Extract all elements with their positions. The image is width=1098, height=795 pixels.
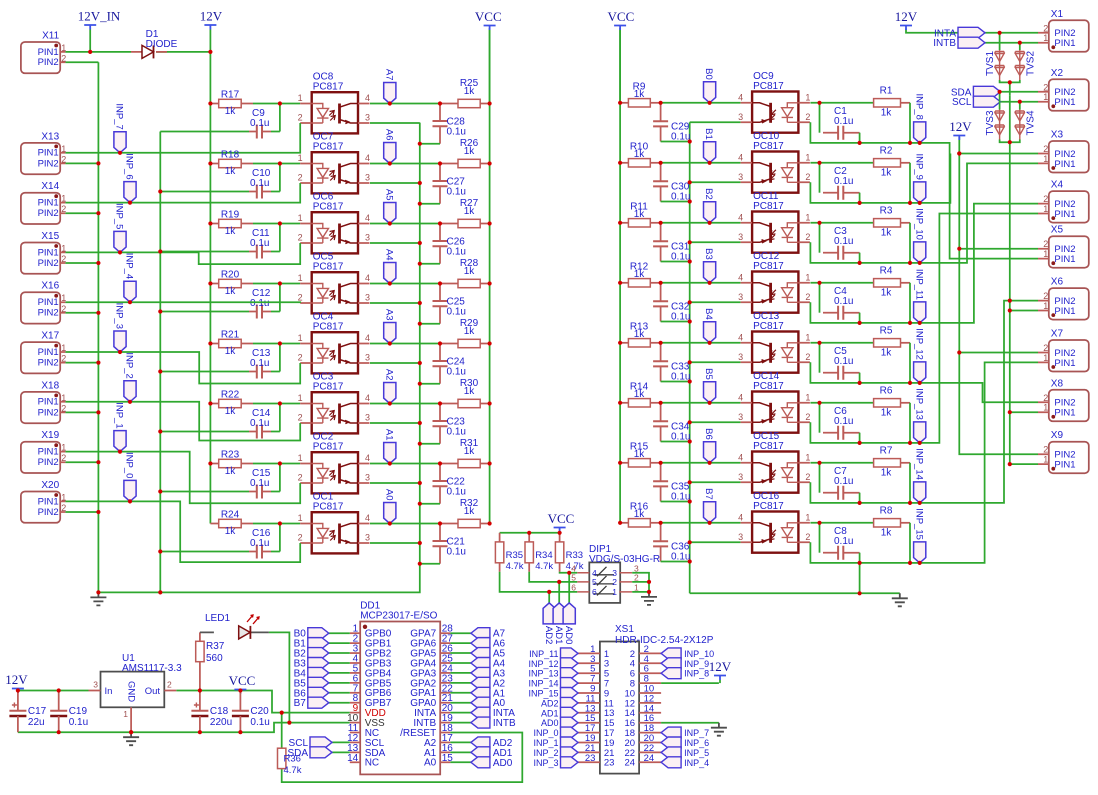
svg-text:PC817: PC817	[753, 441, 784, 452]
svg-text:1k: 1k	[464, 86, 476, 97]
svg-text:PC817: PC817	[313, 262, 344, 273]
wire OC13 pin2 to INP_12	[810, 362, 910, 383]
svg-text:0.1u: 0.1u	[834, 116, 853, 127]
led LED1	[200, 615, 269, 639]
svg-text:PIN1: PIN1	[38, 496, 59, 507]
svg-text:PIN1: PIN1	[1054, 159, 1075, 170]
svg-text:0.1u: 0.1u	[447, 247, 466, 258]
svg-text:1k: 1k	[464, 206, 476, 217]
svg-text:R22: R22	[221, 390, 240, 401]
junction cap gnd right	[688, 559, 692, 563]
svg-text:B0: B0	[703, 68, 714, 80]
lead C12 right	[262, 311, 271, 313]
lead R19 left	[210, 223, 218, 225]
svg-text:2: 2	[61, 53, 66, 63]
svg-text:1: 1	[61, 443, 66, 453]
wire INP_9 to label	[910, 202, 920, 204]
wire OC9 pin2 to INP_8	[810, 122, 910, 143]
svg-text:3: 3	[738, 412, 743, 422]
wire node to OC5 pin1	[280, 283, 300, 285]
svg-text:VCC: VCC	[548, 511, 575, 526]
wire INP_15 to label	[910, 562, 920, 564]
svg-text:A1: A1	[383, 429, 394, 441]
net label INP_12 at XS1	[561, 658, 579, 669]
svg-text:1k: 1k	[634, 509, 646, 520]
net label AD0 at DD1	[471, 757, 490, 768]
svg-text:0.1u: 0.1u	[250, 238, 269, 249]
lead R33 top	[559, 533, 561, 542]
svg-text:0.1u: 0.1u	[250, 178, 269, 189]
header XS1	[600, 642, 639, 774]
junction pullup node	[438, 221, 442, 225]
svg-text:PC817: PC817	[313, 442, 344, 453]
junction INP_3 label tip	[118, 350, 122, 354]
junction pin3 gnd right	[688, 480, 692, 484]
lead C13 left	[249, 371, 257, 373]
wire INP_14 to label	[910, 502, 920, 504]
wire TVS1 TVS2 common	[1000, 80, 1020, 95]
junction net A1	[388, 461, 392, 465]
net label INP_1 at XS1	[561, 737, 579, 748]
svg-text:23: 23	[604, 758, 615, 769]
svg-text:INP_8: INP_8	[913, 93, 924, 119]
net label B5	[308, 677, 329, 688]
svg-text:220u: 220u	[210, 717, 232, 728]
wire DIP common to ground	[632, 573, 649, 592]
XS1 pin 13	[578, 712, 661, 714]
lead R15 left	[620, 462, 628, 464]
wire VCC column	[489, 28, 491, 523]
svg-text:INP_4: INP_4	[684, 758, 709, 768]
lead R28 right	[480, 283, 489, 285]
capacitor C13	[257, 365, 262, 379]
junction INP_7 label tip	[118, 151, 122, 155]
junction 12v branch	[957, 247, 961, 251]
svg-text:PIN2: PIN2	[38, 258, 59, 269]
ground left	[90, 592, 106, 605]
junction VCC to R9	[618, 101, 622, 105]
svg-text:PC817: PC817	[753, 501, 784, 512]
DD1 pin 13 SDA	[350, 751, 360, 753]
connector X11	[21, 42, 60, 73]
wire OC9 pin3 to GND bus	[690, 121, 741, 123]
wire GPA0 to A0	[450, 702, 471, 704]
svg-text:AD0: AD0	[541, 718, 559, 728]
opto-coupler OC1	[300, 512, 369, 553]
wire OC6 pin3 to GND bus	[370, 242, 420, 244]
svg-text:PIN1: PIN1	[38, 447, 59, 458]
svg-text:1k: 1k	[634, 209, 646, 220]
wire INP_11 to X4 pin2	[920, 204, 1038, 323]
svg-text:LED1: LED1	[205, 613, 230, 624]
svg-text:1: 1	[805, 332, 810, 342]
svg-text:C19: C19	[69, 706, 88, 717]
wire B4 to GPB4	[329, 672, 350, 674]
opto-coupler OC11	[741, 212, 810, 253]
lead C11 left	[249, 251, 257, 253]
svg-text:4: 4	[365, 453, 370, 463]
lead R22 left	[210, 403, 218, 405]
svg-text:1: 1	[612, 587, 617, 597]
lead R5 right	[901, 342, 911, 344]
svg-text:2: 2	[298, 233, 303, 243]
svg-text:1k: 1k	[225, 466, 237, 477]
junction net B2	[708, 221, 712, 225]
opto-coupler OC7	[300, 152, 369, 193]
lead R3 right	[901, 222, 911, 224]
svg-text:4: 4	[365, 93, 370, 103]
svg-text:R33: R33	[566, 550, 583, 561]
lead R29 left	[440, 343, 458, 345]
svg-text:1: 1	[61, 144, 66, 154]
junction 12V to R18	[208, 161, 212, 165]
junction INP node	[908, 441, 912, 445]
lead C11 right	[262, 251, 271, 253]
XS1 pin 3	[578, 662, 661, 664]
capacitor C28	[433, 104, 448, 144]
wire OC7 pin3 to GND bus	[370, 182, 420, 184]
svg-text:PIN1: PIN1	[38, 297, 59, 308]
svg-text:1: 1	[1043, 33, 1048, 43]
net label INP_7	[114, 132, 126, 153]
junction gnd bottom	[129, 730, 133, 734]
junction GND buses	[158, 590, 162, 594]
junction input cap top	[817, 341, 821, 345]
svg-text:INP_2: INP_2	[124, 352, 135, 378]
junction cap gnd right	[688, 439, 692, 443]
junction cap gnd bus	[418, 382, 422, 386]
resistor R11	[628, 219, 650, 227]
capacitor C27	[433, 164, 448, 204]
wire node to OC3 pin1	[280, 403, 300, 405]
DD1 pin 14 NC	[350, 761, 360, 763]
wire R33 to DIP pin4	[560, 572, 578, 573]
svg-text:PIN1: PIN1	[1054, 209, 1075, 220]
wire OC15 pin3 to GND bus	[690, 481, 741, 483]
lead C9 left	[249, 131, 257, 133]
svg-text:A7: A7	[383, 69, 394, 81]
junction X6 pin1	[1008, 308, 1012, 312]
wire OC8 pin4 to R25	[370, 103, 440, 105]
DD1 pin 6 GPB5	[350, 682, 360, 684]
wire GPA5 to A5	[450, 652, 471, 654]
connector X14	[21, 193, 60, 224]
svg-text:X14: X14	[41, 181, 59, 192]
lead R33 bottom	[559, 563, 561, 572]
lead C10 left	[249, 191, 257, 193]
svg-text:3: 3	[365, 173, 370, 183]
junction INP_8 tip	[918, 141, 922, 145]
wire B1 to GPB1	[329, 642, 350, 644]
resistor R34	[525, 542, 533, 563]
wire X9 pin1 branch	[1010, 463, 1038, 465]
wire GND bus right half	[689, 122, 691, 593]
svg-text:1: 1	[1043, 154, 1048, 164]
wire node to OC6 pin1	[280, 223, 300, 225]
svg-text:2: 2	[1043, 393, 1048, 403]
resistor R13	[628, 339, 650, 347]
svg-text:R35: R35	[506, 550, 523, 561]
capacitor C9	[257, 125, 262, 139]
wire B6 to GPB6	[329, 692, 350, 694]
wire INTB to X1 pin1	[985, 42, 1038, 44]
svg-text:PIN2: PIN2	[38, 507, 59, 518]
wire net 12V_IN from X11 pin1 through D1	[65, 51, 210, 53]
net label INP_14	[914, 482, 926, 503]
svg-text:2: 2	[298, 473, 303, 483]
svg-text:1: 1	[61, 43, 66, 53]
junction pin3 gnd	[418, 421, 422, 425]
capacitor C5	[819, 343, 821, 373]
svg-text:VCC: VCC	[475, 9, 502, 24]
DD1 pin 15 A0	[440, 761, 450, 763]
XS1 pin 21	[578, 751, 661, 753]
svg-text:1k: 1k	[225, 526, 237, 537]
net label B6 right	[704, 442, 716, 463]
wire cap to node	[271, 311, 280, 313]
wire AD0 stub	[568, 573, 570, 603]
ground DIP	[641, 592, 657, 605]
wire AD1	[450, 751, 471, 753]
wire B5 to GPB5	[329, 682, 350, 684]
svg-text:PC817: PC817	[313, 202, 344, 213]
capacitor C11	[257, 245, 262, 259]
net label AD1 at XS1	[561, 707, 579, 718]
svg-text:AD1: AD1	[553, 626, 564, 644]
wire OC12 pin1 to R4	[810, 282, 873, 284]
junction VCC to R12	[618, 281, 622, 285]
svg-text:3: 3	[365, 533, 370, 543]
svg-text:A2: A2	[383, 369, 394, 381]
svg-text:PC817: PC817	[753, 381, 784, 392]
wire R13 to OC13 pin4	[661, 342, 741, 344]
junction cap gnd right	[688, 259, 692, 263]
net label INP_4 at XS1	[661, 757, 681, 768]
lead R13 right	[650, 342, 660, 344]
wire GPA6 to A6	[450, 642, 471, 644]
junction INP_15 tip	[918, 561, 922, 565]
svg-text:PIN2: PIN2	[38, 57, 59, 68]
wire C11 to GND bus	[160, 251, 249, 253]
capacitor C4	[819, 283, 821, 313]
junction C19	[57, 688, 61, 692]
connector X6	[1049, 288, 1089, 320]
resistor R29	[458, 339, 480, 347]
net label INP_5 at XS1	[661, 747, 681, 758]
tvs diode TVS4	[1015, 110, 1024, 140]
junction anode node 5	[278, 401, 282, 405]
wire C27 to GND bus	[420, 203, 440, 205]
lead R35 bottom	[499, 563, 501, 572]
svg-text:1: 1	[298, 393, 303, 403]
opto-coupler OC6	[300, 212, 369, 253]
junction gnd bus	[96, 161, 100, 165]
svg-text:1k: 1k	[634, 269, 646, 280]
svg-text:3: 3	[738, 472, 743, 482]
junction cap gnd right	[688, 499, 692, 503]
wire OC15 pin1 to R7	[810, 462, 873, 464]
opto-coupler OC15	[741, 452, 810, 493]
wire INP_3 from X17 to OC4 pin2	[65, 352, 300, 384]
junction GND rail at left ground	[96, 590, 100, 594]
wire R22 to node	[253, 404, 280, 432]
svg-text:14: 14	[347, 753, 359, 764]
junction X8 pin1	[1008, 410, 1012, 414]
svg-text:INP_11: INP_11	[913, 269, 924, 300]
lead R32 right	[480, 523, 489, 525]
junction pullup node	[438, 281, 442, 285]
wire OC9 pin1 to R1	[810, 102, 873, 104]
svg-text:0.1u: 0.1u	[834, 176, 853, 187]
wire R6 to INP_13	[909, 403, 911, 443]
wire GND rail bottom caps	[18, 723, 350, 733]
connector X20	[21, 492, 60, 523]
net label INP_10 at XS1	[661, 648, 681, 659]
svg-text:R7: R7	[880, 445, 893, 456]
wire INP_7 from X13 to OC8 pin2	[65, 123, 300, 153]
capacitor C31	[653, 223, 668, 262]
wire C23 to GND bus	[420, 443, 440, 445]
junction pullup node	[438, 341, 442, 345]
svg-text:0.1u: 0.1u	[250, 358, 269, 369]
wire C14 to GND bus	[160, 431, 249, 433]
tvs diode TVS2	[1015, 50, 1024, 80]
lead R22 right	[241, 403, 253, 405]
junction TVS3	[998, 90, 1002, 94]
junction pin3 gnd right	[688, 540, 692, 544]
junction VCC to R13	[618, 341, 622, 345]
wire 12V rail bottom	[18, 690, 89, 692]
svg-text:R2: R2	[880, 145, 893, 156]
net label A6	[384, 143, 396, 164]
lead C12 left	[249, 311, 257, 313]
svg-text:PIN2: PIN2	[38, 308, 59, 319]
svg-text:1k: 1k	[634, 149, 646, 160]
capacitor C2	[819, 163, 821, 193]
lead R19 right	[241, 223, 253, 225]
wire R15 to OC15 pin4	[661, 462, 741, 464]
XS1 pin 5	[578, 672, 661, 674]
svg-text:INP_10: INP_10	[913, 208, 924, 240]
svg-text:1k: 1k	[225, 106, 237, 117]
svg-text:PIN1: PIN1	[1054, 38, 1075, 49]
wire TVS3 TVS4 common	[1000, 140, 1020, 143]
svg-text:0.1u: 0.1u	[447, 367, 466, 378]
svg-text:A0: A0	[424, 758, 437, 769]
junction VCC column	[488, 281, 492, 285]
net label INP_11	[914, 302, 926, 323]
wire INP_8 to label	[910, 142, 920, 144]
lead R10 left	[620, 162, 628, 164]
junction VCC to R16	[618, 521, 622, 525]
wire 12V column left	[209, 52, 211, 524]
net label INTB at DD1	[471, 717, 490, 728]
connector X2	[1049, 79, 1089, 111]
svg-text:2: 2	[61, 254, 66, 264]
net label A4	[384, 263, 396, 284]
svg-text:4: 4	[738, 212, 743, 222]
net label B5 right	[704, 382, 716, 403]
dip switch DIP1	[589, 562, 620, 603]
lead C16 left	[249, 551, 257, 553]
capacitor C14	[257, 425, 262, 439]
svg-text:X7: X7	[1051, 329, 1064, 340]
net label INTA at DD1	[471, 707, 490, 718]
net label AD1 at DD1	[471, 747, 490, 758]
net label INP_9 at XS1	[661, 658, 681, 669]
svg-text:X17: X17	[41, 331, 59, 342]
svg-text:0.1u: 0.1u	[447, 187, 466, 198]
svg-text:PC817: PC817	[313, 82, 344, 93]
svg-text:2: 2	[805, 172, 810, 182]
wire C6 to INP net	[859, 433, 861, 443]
lead R11 left	[620, 222, 628, 224]
resistor R5	[874, 339, 901, 347]
opto-coupler OC9	[741, 92, 810, 133]
svg-text:0.1u: 0.1u	[250, 298, 269, 309]
svg-text:4: 4	[738, 512, 743, 522]
wire R12 to OC12 pin4	[661, 282, 741, 284]
wire C9 to GND bus	[160, 131, 249, 133]
lead C16 right	[262, 551, 271, 553]
lead C14 left	[249, 431, 257, 433]
wire R36 to VCC	[281, 713, 283, 749]
svg-text:DIODE: DIODE	[146, 39, 178, 50]
wire OC1 pin3 to GND bus	[370, 542, 420, 544]
svg-text:2: 2	[1043, 445, 1048, 455]
capacitor C32	[653, 283, 668, 322]
resistor R21	[219, 339, 242, 347]
DD1 pin 17 A2	[440, 741, 450, 743]
svg-text:PC817: PC817	[753, 321, 784, 332]
resistor R36	[278, 748, 286, 768]
svg-text:INP_9: INP_9	[684, 659, 709, 669]
junction INP node	[908, 141, 912, 145]
svg-text:R21: R21	[221, 330, 240, 341]
junction AD1	[557, 580, 561, 584]
svg-text:1k: 1k	[225, 166, 237, 177]
svg-text:2: 2	[61, 403, 66, 413]
net label A7	[384, 83, 396, 104]
svg-text:2: 2	[805, 472, 810, 482]
wire C12 to GND bus	[160, 311, 249, 313]
wire OC3 pin4 to R30	[370, 403, 440, 405]
wire node to OC1 pin1	[280, 523, 300, 525]
capacitor C15	[257, 485, 262, 499]
wire C30 to GND bus	[661, 201, 690, 203]
wire SCL	[332, 741, 350, 743]
wire GND bus left	[97, 62, 99, 592]
wire C3 to INP net	[859, 253, 861, 263]
svg-text:INP_2: INP_2	[533, 748, 558, 758]
capacitor C6	[819, 403, 821, 433]
lead R17 right	[241, 103, 253, 105]
opto-coupler OC5	[300, 272, 369, 313]
net label INP_0	[124, 480, 136, 501]
connector X15	[21, 243, 60, 274]
junction pullup node right	[659, 101, 663, 105]
svg-text:XS1: XS1	[615, 624, 634, 635]
junction 12V to R19	[208, 221, 212, 225]
XS1 pin 23	[578, 761, 661, 763]
junction net B3	[708, 281, 712, 285]
svg-text:1: 1	[298, 513, 303, 523]
lead R25 left	[440, 103, 458, 105]
svg-text:PIN1: PIN1	[38, 198, 59, 209]
lead R23 right	[241, 463, 253, 465]
svg-text:TVS4: TVS4	[1025, 110, 1036, 135]
svg-text:1k: 1k	[225, 286, 237, 297]
